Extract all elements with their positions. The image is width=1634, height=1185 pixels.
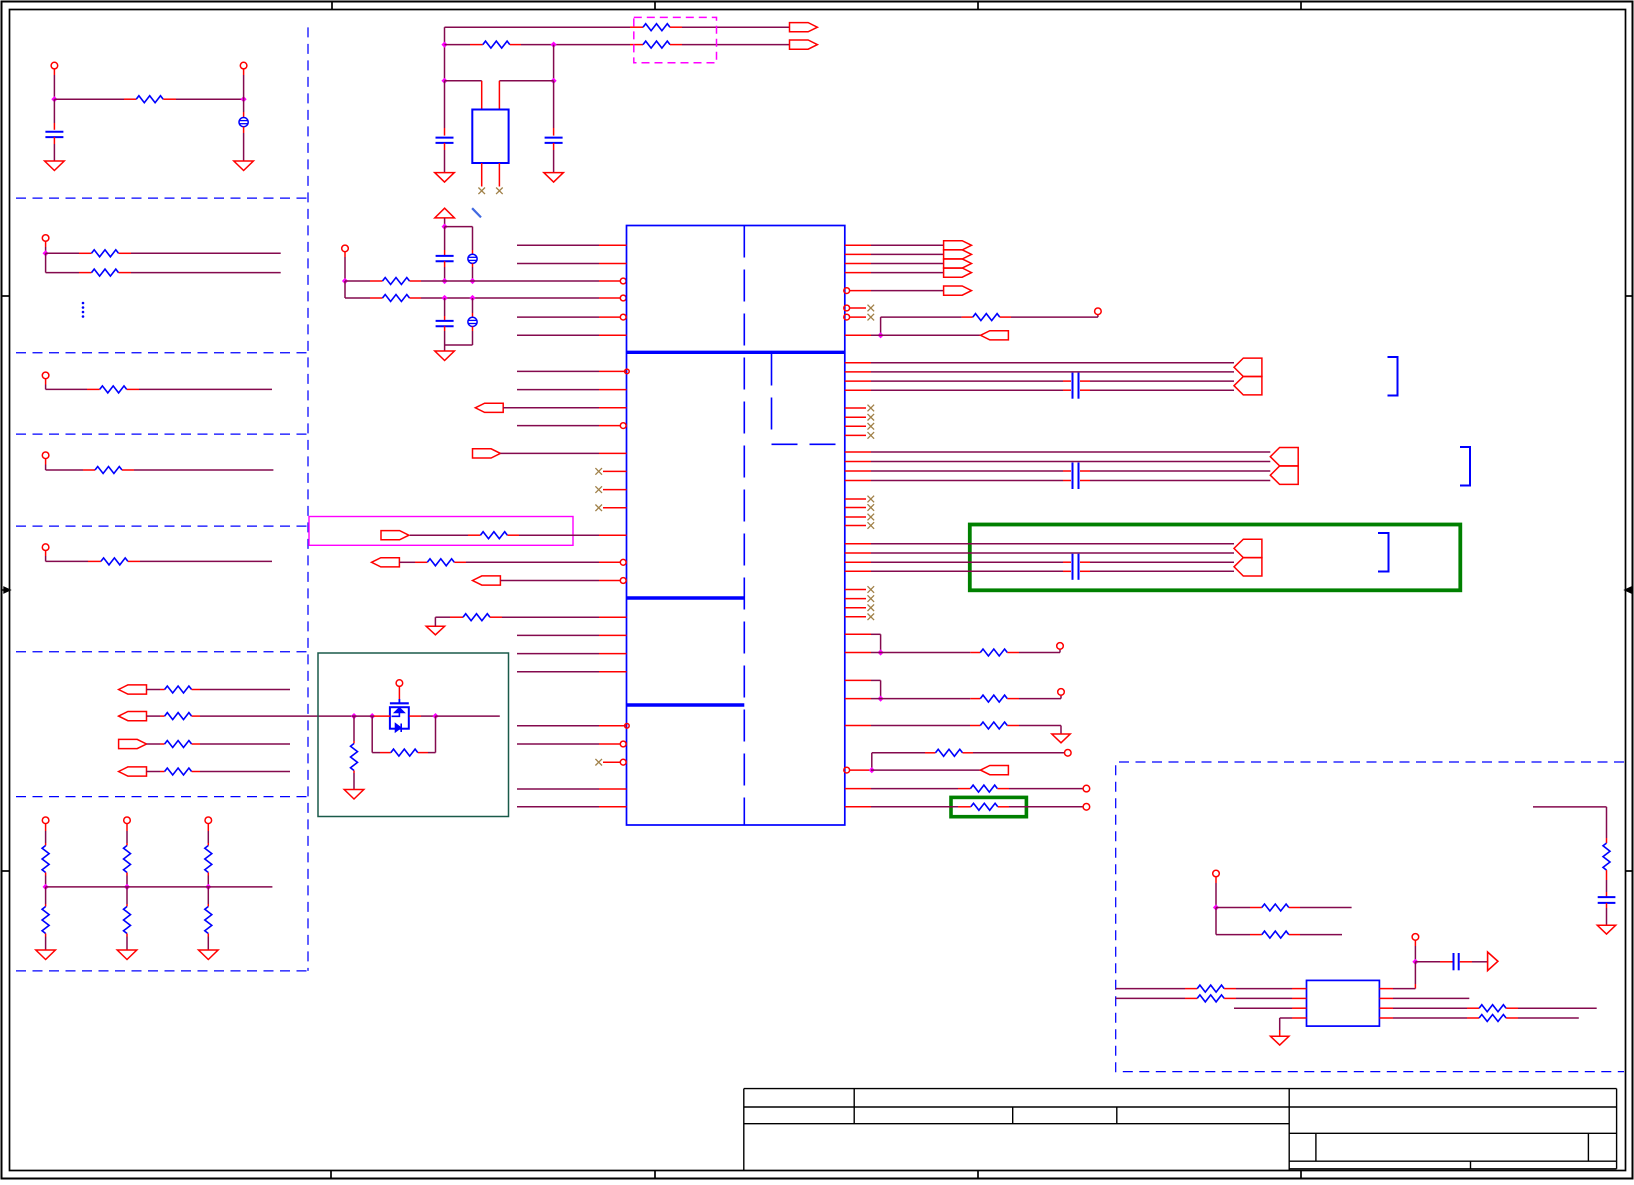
wire pin (517, 653, 627, 655)
node junction (351, 713, 357, 719)
title block (744, 1089, 1617, 1171)
green highlight box (970, 525, 1461, 591)
wire (871, 334, 981, 336)
resistor R39 (1479, 1005, 1506, 1012)
ground (1597, 925, 1615, 934)
ground (435, 351, 455, 361)
wire (871, 561, 1234, 563)
wire (1289, 934, 1342, 936)
port P13 (1234, 377, 1262, 395)
wire (1216, 907, 1262, 909)
port P2 (119, 712, 147, 721)
wire pin (1116, 997, 1198, 999)
wire (871, 389, 1234, 391)
node junction (469, 278, 475, 284)
wire (1215, 877, 1217, 908)
polarized capacitor C8 (468, 298, 477, 345)
node junction (241, 96, 247, 102)
wire (871, 371, 1234, 373)
wire (163, 98, 243, 100)
ground (426, 626, 444, 635)
capacitor C16 (1454, 953, 1459, 970)
no-connect pin (845, 614, 874, 621)
pin bubble (620, 295, 626, 301)
resistor R28 (980, 649, 1007, 656)
resistor R30 (980, 722, 1007, 729)
no-connect pin (850, 314, 874, 321)
terminal J8 (124, 817, 131, 824)
terminal J5 (42, 452, 49, 459)
no-connect pin (845, 604, 874, 611)
no-connect crystal pin 3 (478, 163, 485, 194)
wire pin (845, 788, 871, 790)
wire (192, 715, 352, 717)
wire (435, 617, 463, 626)
node junction (869, 767, 875, 773)
wire (126, 824, 128, 846)
resistor R7 (165, 686, 192, 693)
wire (445, 26, 644, 28)
node junction (878, 649, 884, 655)
ground (435, 173, 455, 183)
wire (192, 771, 290, 773)
wire (445, 44, 483, 46)
wire (399, 561, 427, 563)
wire pin (1379, 997, 1469, 999)
no-connect pin (845, 522, 874, 529)
wire (122, 469, 273, 471)
port group PA (944, 241, 972, 278)
wire pin (517, 788, 627, 790)
terminal J19 (1412, 934, 1419, 941)
wire (119, 272, 281, 274)
wire pin (517, 671, 627, 673)
pin bubble (620, 759, 626, 765)
node junction (878, 332, 884, 338)
resistor R33 (971, 803, 998, 810)
node junction (1213, 904, 1219, 910)
wire (1000, 314, 1098, 317)
wire (46, 551, 101, 562)
wire (871, 263, 944, 265)
resistor R17 (643, 24, 670, 31)
wire (553, 45, 555, 81)
port P3 (119, 739, 147, 748)
terminal J11 (396, 680, 403, 687)
node junction (551, 78, 557, 84)
wire pin (1379, 1007, 1479, 1009)
node junction (342, 278, 348, 284)
wire (1216, 908, 1262, 935)
no-connect pin (595, 505, 626, 512)
wire pin (845, 679, 871, 681)
wire (127, 388, 272, 390)
terminal J10 (342, 245, 349, 252)
pin bubble (620, 559, 626, 565)
IC U1 section divider 1 (627, 351, 845, 354)
wire pin (517, 389, 627, 391)
resistor R32 (970, 785, 997, 792)
wire (1007, 726, 1061, 734)
wire pin (845, 552, 871, 554)
wire pin (517, 370, 627, 372)
wire pin (845, 461, 871, 463)
terminal J7 (42, 817, 49, 824)
wire (444, 27, 446, 81)
wire (871, 362, 1234, 364)
pin bubble (844, 767, 850, 773)
resistor R5 (95, 467, 122, 474)
border zone ticks right (1626, 296, 1634, 871)
wire bus of dividers (46, 886, 273, 888)
ground (1271, 1036, 1289, 1045)
wire (1224, 997, 1306, 999)
no-connect pin (595, 468, 626, 475)
resistor R35 (1262, 904, 1289, 911)
resistor R38 (1197, 995, 1224, 1002)
resistor R19 (643, 41, 670, 48)
port P14 (1270, 448, 1298, 466)
border zone ticks top (332, 2, 1301, 10)
ellipsis dots (82, 302, 85, 318)
pin bubble (625, 724, 630, 729)
wire (872, 752, 936, 754)
port P7 (381, 531, 409, 540)
node junction (205, 884, 211, 890)
pin bubble (620, 741, 626, 747)
border zone ticks bottom (331, 1171, 1301, 1179)
wire (352, 715, 434, 717)
wire pin (517, 316, 620, 318)
terminal J3 (42, 235, 49, 242)
wire (871, 244, 944, 246)
wire (53, 69, 55, 99)
resistor R16 (205, 907, 212, 934)
resistor R1 (136, 96, 163, 103)
resistor R10 (165, 768, 192, 775)
border mid arrow right (1625, 587, 1633, 593)
wire (472, 263, 474, 281)
wire pin (845, 470, 871, 472)
terminal J14 (1058, 689, 1065, 696)
crystal Y1 (472, 110, 508, 164)
node junction (369, 713, 375, 719)
wire (1506, 1017, 1579, 1019)
resistor R37 (1197, 985, 1224, 992)
ground (1052, 734, 1070, 743)
dashed region box bottom right (1116, 762, 1624, 1072)
resistor R14 (124, 907, 131, 934)
wire pin (845, 806, 871, 808)
wire (1506, 1007, 1597, 1009)
wire (1379, 962, 1415, 989)
ground (199, 950, 219, 960)
wire (871, 652, 980, 654)
polarized capacitor C5 (468, 254, 477, 263)
wire (119, 252, 281, 254)
wire (1414, 940, 1416, 962)
port P9 (473, 576, 501, 585)
capacitor pair C13 C14 (1072, 554, 1074, 580)
capacitor C3 (436, 81, 454, 173)
node junction (442, 278, 448, 284)
wire pin (845, 480, 871, 482)
pink highlight box (309, 517, 573, 546)
resistor R9 (165, 741, 192, 748)
power flag arrow (1488, 952, 1498, 971)
wire (1007, 695, 1061, 699)
wire (1289, 907, 1352, 909)
no-connect pin (845, 496, 874, 503)
wire (871, 698, 980, 700)
port P12 (1234, 358, 1262, 376)
wire pin (517, 634, 627, 636)
wire (46, 459, 95, 470)
wire pin (454, 561, 620, 563)
resistor R12 (42, 907, 49, 934)
wire pin (500, 580, 620, 582)
resistor R26 (391, 749, 418, 756)
connector bracket (1460, 447, 1470, 486)
IC U1 section divider 2 (627, 596, 745, 599)
wire pin (845, 543, 871, 545)
no-connect pin (845, 595, 874, 602)
no-connect pin (845, 514, 874, 521)
wire pin (850, 290, 871, 292)
wire pin (845, 633, 871, 635)
wire (871, 634, 881, 652)
wire pin (503, 407, 626, 409)
wire (499, 81, 553, 110)
terminal J17 (1083, 804, 1090, 811)
wire pin (517, 263, 627, 265)
wire pin (845, 725, 871, 727)
border mid arrow left (2, 587, 10, 593)
node junction (43, 250, 49, 256)
dashed option box (634, 17, 717, 62)
terminal J13 (1057, 643, 1064, 650)
wire pin (500, 452, 626, 454)
wire (871, 788, 970, 790)
port P4 (119, 767, 147, 776)
no-connect pin (595, 759, 620, 766)
wire pin (845, 272, 871, 274)
port P16 (1234, 539, 1262, 557)
wire (1460, 961, 1488, 963)
wire (1224, 988, 1306, 990)
pin bubble (620, 423, 626, 429)
wire pin (845, 389, 871, 391)
wire (192, 689, 290, 691)
resistor R3 (92, 269, 119, 276)
resistor R21 (383, 295, 410, 302)
resistor R27 (973, 314, 1000, 321)
port CLK2 (790, 40, 818, 49)
pin bubble (620, 314, 626, 320)
wire (54, 98, 136, 100)
capacitor pair C9 C10 (1072, 373, 1074, 399)
wire pin (507, 534, 626, 536)
wire (1533, 807, 1607, 843)
wire pin (517, 725, 627, 727)
no-connect pin (845, 423, 874, 430)
wire pin (845, 380, 871, 382)
wire (344, 281, 346, 298)
wire pin (517, 743, 620, 745)
pin bubble (844, 314, 850, 320)
wire (46, 379, 100, 390)
wire (147, 689, 165, 691)
wire (871, 380, 1234, 382)
wire (418, 716, 436, 753)
node junction (441, 78, 447, 84)
no-connect pin (845, 414, 874, 421)
wire (126, 887, 128, 907)
port P10 (944, 286, 972, 295)
capacitor pair C11 C12 (1072, 463, 1074, 490)
node junction (442, 295, 448, 301)
resistor R2 (92, 250, 119, 257)
node junction (441, 42, 447, 48)
ground (234, 161, 254, 171)
wire pin (490, 616, 627, 618)
no-connect pin (845, 405, 874, 412)
wire pin (845, 698, 871, 700)
terminal J16 (1083, 785, 1090, 792)
node junction (51, 96, 57, 102)
wire (147, 715, 165, 717)
resistor R24 (463, 614, 490, 621)
wire pin (517, 425, 620, 427)
wire (45, 824, 47, 846)
no-connect crystal pin 4 (496, 163, 503, 194)
resistor R6 (101, 558, 128, 565)
capacitor C6 (436, 227, 454, 281)
wire (998, 806, 1083, 808)
wire (510, 44, 643, 46)
ground (36, 950, 56, 960)
IC U1 internal divider dashed (743, 226, 745, 826)
transistor Q1 (390, 699, 409, 732)
resistor R13 (124, 846, 131, 873)
no-connect pin (845, 504, 874, 511)
resistor R4 (100, 386, 127, 393)
wire (410, 297, 621, 299)
wire (1606, 903, 1608, 925)
pin bubble (844, 288, 850, 294)
wire (871, 806, 971, 808)
wire pin (845, 263, 871, 265)
port P15 (1270, 466, 1298, 484)
no-connect pin (845, 586, 874, 593)
wire (871, 480, 1270, 482)
port P6 (473, 449, 501, 458)
wire (997, 788, 1082, 790)
wire (871, 570, 1234, 572)
green highlight box small (951, 797, 1026, 816)
wire (410, 280, 621, 282)
pin bubble (620, 578, 626, 584)
wire (880, 317, 882, 335)
wire (871, 769, 981, 771)
wire (1415, 961, 1452, 963)
port P18 (981, 766, 1009, 775)
wire (207, 887, 209, 907)
node junction (442, 224, 448, 230)
wire pin (517, 244, 627, 246)
wire (881, 316, 973, 318)
IC U1 sub-block dashed vertical (771, 354, 773, 438)
wire (871, 543, 1234, 545)
wire (243, 69, 245, 99)
pin bubble (620, 278, 626, 284)
wire (871, 680, 881, 698)
resistor R22 (480, 532, 507, 539)
wire (871, 753, 873, 770)
wire (126, 934, 128, 950)
wire (871, 272, 944, 274)
node junction (432, 713, 438, 719)
resistor R8 (165, 713, 192, 720)
node junction (43, 884, 49, 890)
IC U2 body (1307, 980, 1380, 1026)
resistor R34 (1603, 843, 1610, 870)
terminal J2 (240, 62, 247, 69)
node junction (878, 696, 884, 702)
resistor R15 (205, 846, 212, 873)
wire (445, 345, 473, 351)
wire (871, 470, 1270, 472)
wire pin (845, 371, 871, 373)
pin bubble (844, 305, 850, 311)
wire pin (517, 334, 627, 336)
wire pin (1379, 1017, 1479, 1019)
wire (1007, 649, 1060, 652)
resistor R25 (351, 716, 358, 789)
wire pin row 2 (345, 297, 383, 299)
resistor R18 (483, 41, 510, 48)
terminal J4 (42, 372, 49, 379)
terminal J18 (1213, 870, 1220, 877)
resistor R36 (1262, 931, 1289, 938)
wire (45, 887, 47, 907)
wire (436, 715, 500, 717)
wire pin (845, 334, 871, 336)
terminal J9 (205, 817, 212, 824)
capacitor C1 (45, 99, 63, 161)
resistor R31 (936, 749, 963, 756)
capacitor C7 (436, 298, 454, 345)
pin bubble (625, 369, 630, 374)
polarity slash mark (472, 208, 481, 217)
capacitor C15 (1598, 897, 1616, 903)
IC U1 body (627, 226, 845, 826)
no-connect pin (850, 305, 874, 312)
wire pin (845, 652, 871, 654)
wire (46, 252, 92, 254)
IC U1 sub-block dashed horizontal (772, 443, 845, 445)
wire (670, 44, 790, 46)
wire pin (845, 253, 871, 255)
wire pin (845, 570, 871, 572)
port P8 (372, 558, 400, 567)
wire (45, 873, 47, 887)
connector bracket (1378, 533, 1389, 572)
terminal J6 (42, 544, 49, 551)
wire (126, 873, 128, 887)
border zone ticks left (2, 296, 10, 871)
wire (445, 81, 482, 110)
